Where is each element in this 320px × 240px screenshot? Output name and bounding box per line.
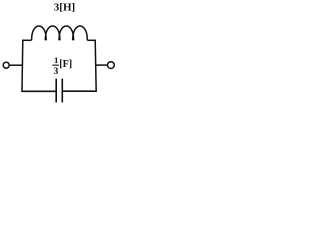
capacitor C plate left: [55, 79, 57, 103]
svg-text:3: 3: [54, 66, 59, 77]
right terminal stub wire: [96, 64, 108, 66]
inductor loop 4: [73, 26, 88, 40]
bottom wire right segment: [63, 90, 97, 92]
left vertical wire: [21, 40, 24, 92]
svg-text:1: 1: [54, 55, 58, 65]
right vertical wire: [95, 40, 96, 92]
inductor loop 3: [59, 26, 74, 40]
inductor loop 1: [32, 26, 47, 40]
inductor L1 (top branch, 4 loops): [22, 26, 96, 40]
background: [0, 0, 119, 108]
inductor loop 2: [45, 26, 60, 40]
svg-text:3[H]: 3[H]: [54, 1, 75, 13]
left terminal stub wire: [9, 64, 22, 66]
wire top-right segment: [87, 39, 95, 41]
bottom wire left segment: [22, 90, 56, 92]
fraction bar: [52, 65, 59, 66]
right terminal circle: [108, 62, 115, 69]
svg-text:[F]: [F]: [59, 59, 72, 70]
capacitor C plate right: [61, 79, 63, 103]
left terminal circle: [3, 62, 9, 68]
wire top-left segment: [22, 39, 31, 41]
